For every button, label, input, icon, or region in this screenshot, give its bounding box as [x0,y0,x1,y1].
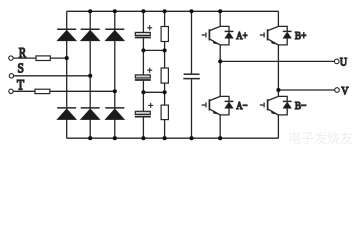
junction DC- / D5 [88,136,92,140]
capacitor C1 [135,11,152,50]
IGBT B+ [260,26,279,45]
junction node V at leg B [276,88,280,92]
wire phase S [14,75,91,77]
junction DC- / C4 [189,136,193,140]
junction node M1 at C1/C2 [141,48,145,52]
svg-text:B+: B+ [295,30,307,42]
capacitor C3 [135,92,153,138]
wire output V [278,89,334,91]
junction DC- / C3 [141,136,145,140]
terminal R [9,56,13,60]
diode D6 [105,108,124,120]
junction DC+ / D2 [88,9,92,13]
diode D5 [81,108,100,120]
junction DC+ / C4 [189,9,193,13]
IGBT A+ [202,26,221,45]
diode D2 [81,29,100,41]
fuse F1 [36,56,50,61]
svg-text:A+: A+ [236,30,247,42]
freewheel diode B- [278,96,291,115]
freewheel diode A- [220,96,233,115]
wire rectifier column 2 [89,11,91,138]
svg-text:电子发烧友: 电子发烧友 [288,131,353,146]
junction DC+ / D3 [113,9,117,13]
wire phase R [13,57,66,59]
svg-text:A−: A− [236,100,247,112]
wire inverter leg A [219,11,221,138]
junction DC+ / leg A [218,9,222,13]
junction node T phase [113,89,117,93]
svg-text:U: U [340,55,347,69]
wire top DC+ rail [67,10,279,12]
wire rectifier column 3 [114,11,116,138]
wire link node M1 [143,49,165,51]
IGBT B- [260,96,279,115]
capacitor C2 [135,50,152,92]
capacitor C4 [183,11,200,138]
wire phase T [13,90,115,92]
terminal V [335,88,340,93]
wire output U [220,60,334,62]
diode D4 [57,108,76,120]
svg-text:R: R [19,46,27,62]
svg-text:T: T [17,78,24,94]
svg-text:S: S [18,61,24,76]
IGBT A- [202,96,221,115]
wire bottom DC- rail [67,137,279,139]
junction DC- / leg A [218,136,222,140]
resistor R3 [161,105,168,138]
resistor R1 [161,11,168,68]
junction DC+ / C1 [141,9,145,13]
diode D1 [57,29,76,41]
junction node M1 at R1/R2 [163,48,167,52]
wire link node M2 [143,91,165,93]
junction DC- / D6 [113,136,117,140]
junction node U at leg A [218,59,222,63]
svg-text:B−: B− [295,100,307,112]
terminal U [334,59,339,64]
terminal T [9,89,13,93]
wire rectifier column 1 [66,11,68,138]
freewheel diode B+ [278,26,291,45]
junction DC+ / R1 [163,9,167,13]
wire inverter leg B [277,11,279,138]
diode D3 [105,29,124,41]
resistor R2 [161,68,168,105]
junction node S phase [88,74,92,78]
fuse F2 [35,89,50,93]
junction node M2 at C2/C3 [141,90,145,94]
junction node R phase [65,56,69,60]
freewheel diode A+ [220,26,233,45]
terminal S [9,74,13,78]
junction DC- / R3 [163,136,167,140]
junction node M2 at R2/R3 [163,90,167,94]
svg-text:V: V [341,86,349,98]
